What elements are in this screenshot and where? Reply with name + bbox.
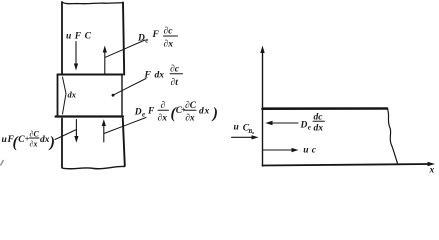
svg-text:e: e bbox=[142, 111, 145, 119]
svg-text:d: d bbox=[199, 107, 204, 117]
svg-text:e: e bbox=[145, 37, 148, 45]
svg-text:u: u bbox=[303, 146, 308, 156]
svg-text:x: x bbox=[204, 107, 210, 117]
svg-text:): ) bbox=[48, 134, 55, 151]
svg-text:dx: dx bbox=[155, 71, 165, 81]
svg-text:x: x bbox=[429, 166, 435, 176]
svg-text:∂: ∂ bbox=[161, 101, 166, 111]
svg-text:D: D bbox=[134, 108, 142, 118]
svg-text:∂c: ∂c bbox=[170, 64, 180, 74]
svg-text:∂x: ∂x bbox=[158, 114, 168, 124]
svg-text:F: F bbox=[144, 71, 152, 81]
svg-text:∂x: ∂x bbox=[164, 40, 174, 50]
svg-text:F: F bbox=[74, 31, 82, 41]
svg-text:dx: dx bbox=[40, 135, 50, 145]
svg-text:dx: dx bbox=[314, 123, 324, 133]
svg-text:dx: dx bbox=[68, 90, 77, 100]
svg-text:F: F bbox=[147, 107, 155, 117]
svg-text:∂C: ∂C bbox=[185, 101, 197, 111]
svg-text:): ) bbox=[211, 105, 218, 122]
svg-text:D: D bbox=[137, 34, 145, 44]
svg-text:∂x: ∂x bbox=[185, 114, 195, 124]
svg-text:∂t: ∂t bbox=[171, 78, 179, 88]
svg-text:e: e bbox=[308, 123, 311, 131]
svg-text:∂c: ∂c bbox=[164, 27, 174, 37]
svg-text:C: C bbox=[85, 32, 92, 42]
svg-text:u: u bbox=[234, 123, 239, 133]
svg-text:dc: dc bbox=[314, 112, 324, 122]
svg-text:F: F bbox=[152, 30, 160, 40]
svg-text:u: u bbox=[2, 135, 7, 145]
svg-text:D: D bbox=[300, 121, 308, 131]
svg-text:∂C: ∂C bbox=[30, 130, 40, 139]
svg-text:u: u bbox=[66, 32, 71, 42]
svg-text:∂x: ∂x bbox=[30, 139, 38, 148]
